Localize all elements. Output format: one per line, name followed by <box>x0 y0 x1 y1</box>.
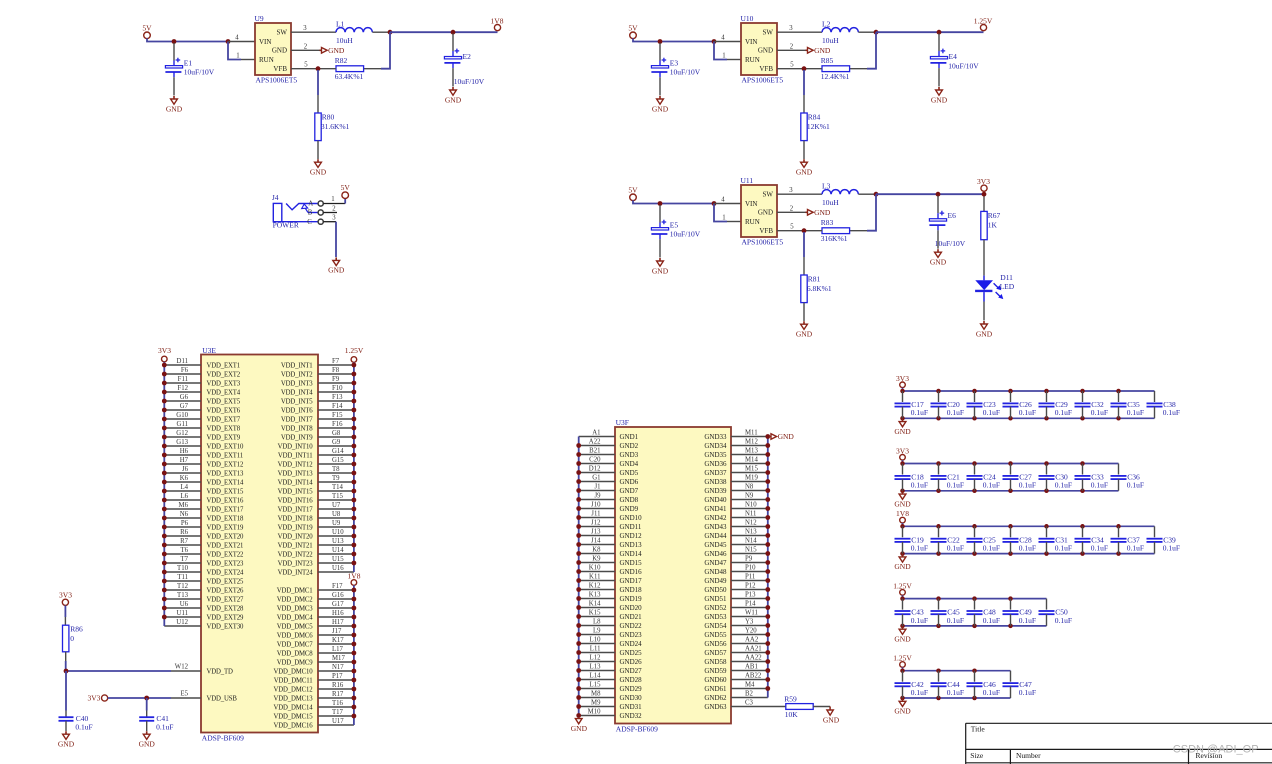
svg-text:F10: F10 <box>332 385 343 392</box>
svg-text:0: 0 <box>70 634 74 643</box>
svg-text:GND: GND <box>894 707 911 716</box>
svg-text:0.1uF: 0.1uF <box>1019 688 1036 697</box>
svg-text:VDD_EXT27: VDD_EXT27 <box>207 596 245 603</box>
svg-text:M19: M19 <box>745 474 758 481</box>
svg-text:R6: R6 <box>180 529 189 536</box>
pin GND wire <box>777 49 807 51</box>
svg-text:U12: U12 <box>176 619 188 626</box>
svg-text:1V8: 1V8 <box>348 572 361 581</box>
svg-text:0.1uF: 0.1uF <box>983 544 1000 553</box>
capacitor C22 0.1uF <box>931 526 965 553</box>
svg-text:D11: D11 <box>177 358 188 365</box>
svg-text:M14: M14 <box>745 456 758 463</box>
svg-text:GND: GND <box>310 168 327 177</box>
svg-text:GND41: GND41 <box>704 505 727 513</box>
svg-text:12.4K%1: 12.4K%1 <box>821 72 850 81</box>
svg-text:GND9: GND9 <box>620 505 639 513</box>
junction <box>802 228 807 233</box>
svg-text:31.6K%1: 31.6K%1 <box>321 122 350 131</box>
svg-text:63.4K%1: 63.4K%1 <box>335 72 364 81</box>
svg-text:R84: R84 <box>808 113 821 122</box>
svg-text:C: C <box>307 219 312 226</box>
svg-text:C20: C20 <box>589 456 601 463</box>
svg-text:E5: E5 <box>670 220 679 229</box>
svg-text:M12: M12 <box>745 438 758 445</box>
svg-text:SW: SW <box>277 28 288 36</box>
svg-text:VDD_INT23: VDD_INT23 <box>278 560 314 567</box>
svg-text:3V3: 3V3 <box>977 177 990 186</box>
svg-text:VDD_INT7: VDD_INT7 <box>281 416 313 423</box>
svg-text:VDD_EXT29: VDD_EXT29 <box>207 614 245 621</box>
svg-text:U3F: U3F <box>616 418 629 427</box>
svg-text:U17: U17 <box>332 718 344 725</box>
junctions <box>162 363 167 620</box>
svg-text:H6: H6 <box>180 448 189 455</box>
svg-text:GND29: GND29 <box>620 685 643 693</box>
pin SW wire <box>291 31 336 33</box>
svg-text:GND44: GND44 <box>704 532 727 540</box>
power port 1.25V <box>974 16 993 30</box>
resistor R82 63.4K%1 <box>318 56 364 81</box>
power port 3V3 <box>87 694 107 703</box>
svg-text:G14: G14 <box>332 448 344 455</box>
wire GND bus <box>903 553 1155 555</box>
ground <box>894 491 911 508</box>
wire RUN loop <box>714 42 741 60</box>
svg-text:T13: T13 <box>177 592 189 599</box>
ground <box>894 626 911 643</box>
svg-text:L12: L12 <box>590 654 602 661</box>
svg-text:F11: F11 <box>178 376 188 383</box>
capacitor C39 0.1uF <box>1147 526 1181 553</box>
junctions <box>900 524 1121 556</box>
svg-text:GND47: GND47 <box>704 559 727 567</box>
svg-text:GND10: GND10 <box>620 514 643 522</box>
svg-text:GND59: GND59 <box>704 667 727 675</box>
svg-text:VDD_INT15: VDD_INT15 <box>278 488 314 495</box>
svg-text:GND8: GND8 <box>620 496 639 504</box>
power port 1.25V <box>893 581 912 595</box>
power port 1.25V <box>893 654 912 668</box>
svg-text:2: 2 <box>790 43 794 50</box>
svg-text:0.1uF: 0.1uF <box>983 616 1000 625</box>
svg-text:U3E: U3E <box>202 346 216 355</box>
svg-text:VDD_INT12: VDD_INT12 <box>278 461 314 468</box>
wire 1V8 bus <box>903 523 1155 526</box>
ground (pin 2) <box>806 208 831 217</box>
svg-text:0.1uF: 0.1uF <box>911 408 928 417</box>
svg-text:VDD_EXT30: VDD_EXT30 <box>207 623 245 630</box>
svg-text:H17: H17 <box>332 619 344 626</box>
svg-text:0.1uF: 0.1uF <box>1055 408 1072 417</box>
svg-text:0.1uF: 0.1uF <box>1127 544 1144 553</box>
capacitor C46 0.1uF <box>967 671 1001 698</box>
pin VFB wire <box>291 68 318 70</box>
U3F left pin wires <box>579 437 615 716</box>
svg-text:0.1uF: 0.1uF <box>1163 408 1180 417</box>
capacitor C48 0.1uF <box>967 599 1001 626</box>
wire 5V input net <box>633 200 714 203</box>
svg-text:GND43: GND43 <box>704 523 727 531</box>
capacitor C34 0.1uF <box>1075 526 1109 553</box>
svg-text:1: 1 <box>722 214 725 221</box>
svg-text:SW: SW <box>763 28 774 36</box>
svg-text:GND18: GND18 <box>620 586 643 594</box>
svg-text:VDD_INT13: VDD_INT13 <box>278 470 314 477</box>
pin numbers <box>721 187 794 230</box>
capacitor C30 0.1uF <box>1039 464 1073 491</box>
svg-text:GND: GND <box>139 740 156 749</box>
svg-text:Title: Title <box>971 725 986 734</box>
svg-text:GND61: GND61 <box>704 685 727 693</box>
svg-text:P12: P12 <box>745 582 756 589</box>
resistor R81 6.8K%1 <box>801 232 832 321</box>
ground <box>652 258 669 275</box>
svg-text:U13: U13 <box>332 538 344 545</box>
svg-text:GND17: GND17 <box>620 577 643 585</box>
ground <box>894 419 911 436</box>
svg-text:1V8: 1V8 <box>896 509 909 518</box>
wire to GND <box>335 222 337 257</box>
svg-text:VDD_EXT21: VDD_EXT21 <box>207 542 244 549</box>
wire W12 net <box>66 661 171 671</box>
svg-text:GND36: GND36 <box>704 460 727 468</box>
svg-text:6.8K%1: 6.8K%1 <box>807 284 832 293</box>
svg-text:G9: G9 <box>332 439 341 446</box>
ground <box>894 554 911 571</box>
svg-text:U10: U10 <box>741 14 754 23</box>
svg-text:0.1uF: 0.1uF <box>947 616 964 625</box>
capacitor C17 0.1uF <box>895 391 929 418</box>
svg-text:F8: F8 <box>332 367 340 374</box>
svg-text:3: 3 <box>789 25 793 32</box>
svg-text:Size: Size <box>970 751 984 760</box>
svg-text:GND22: GND22 <box>620 622 643 630</box>
svg-text:K15: K15 <box>589 609 601 616</box>
svg-text:T8: T8 <box>332 466 340 473</box>
svg-text:L17: L17 <box>332 646 344 653</box>
svg-text:K8: K8 <box>592 546 601 553</box>
svg-text:0.1uF: 0.1uF <box>983 408 1000 417</box>
svg-text:M4: M4 <box>745 681 755 688</box>
svg-text:GND62: GND62 <box>704 694 727 702</box>
svg-text:VDD_EXT20: VDD_EXT20 <box>207 533 245 540</box>
svg-text:G15: G15 <box>332 457 344 464</box>
watermark <box>1173 743 1259 755</box>
wire E5 net <box>108 697 171 699</box>
svg-text:U16: U16 <box>332 565 344 572</box>
pin SW wire <box>777 31 822 33</box>
svg-text:GND: GND <box>166 104 183 113</box>
svg-text:GND16: GND16 <box>620 568 643 576</box>
svg-text:T14: T14 <box>332 484 344 491</box>
svg-text:GND: GND <box>894 499 911 508</box>
svg-text:GND: GND <box>894 635 911 644</box>
svg-text:0.1uF: 0.1uF <box>75 723 92 732</box>
wire 1.25V bus <box>903 667 1011 670</box>
svg-text:GND11: GND11 <box>620 523 642 531</box>
ground <box>571 719 588 733</box>
inductor L2 10uH <box>822 20 874 46</box>
svg-text:RUN: RUN <box>745 56 760 64</box>
junctions <box>900 668 977 700</box>
svg-text:0.1uF: 0.1uF <box>911 616 928 625</box>
svg-text:0.1uF: 0.1uF <box>947 408 964 417</box>
pin numbers <box>721 25 794 68</box>
U3E right pin names <box>273 362 313 729</box>
svg-text:VDD_DMC7: VDD_DMC7 <box>277 641 314 648</box>
svg-text:G12: G12 <box>176 430 188 437</box>
svg-text:H7: H7 <box>180 457 189 464</box>
capacitor C49 0.1uF <box>1003 599 1037 626</box>
resistor R59 10K <box>784 695 830 719</box>
capacitor C50 0.1uF <box>1039 599 1073 626</box>
svg-text:M13: M13 <box>745 447 758 454</box>
svg-text:GND: GND <box>796 330 813 339</box>
svg-text:GND: GND <box>931 95 948 104</box>
svg-text:GND: GND <box>328 46 345 55</box>
svg-text:T17: T17 <box>332 709 344 716</box>
svg-text:316K%1: 316K%1 <box>821 234 848 243</box>
svg-text:J13: J13 <box>591 528 601 535</box>
ground <box>796 321 813 338</box>
svg-text:GND1: GND1 <box>620 433 639 441</box>
svg-text:GND32: GND32 <box>620 712 643 720</box>
svg-text:5V: 5V <box>341 183 351 192</box>
ground <box>445 87 462 104</box>
capacitor C38 0.1uF <box>1147 391 1181 418</box>
power port 5V (U11 input) <box>628 185 638 200</box>
svg-text:GND: GND <box>758 209 773 217</box>
wire 3V3 bus <box>903 460 1119 463</box>
wire GND bus <box>903 625 1047 627</box>
resistor R67 1K <box>981 196 1001 275</box>
svg-text:1V8: 1V8 <box>491 16 504 25</box>
inductor L3 10uH <box>822 182 874 208</box>
svg-text:F12: F12 <box>177 385 188 392</box>
svg-text:GND: GND <box>652 104 669 113</box>
svg-text:P17: P17 <box>332 673 343 680</box>
svg-text:B: B <box>308 210 313 217</box>
svg-text:5: 5 <box>790 224 794 231</box>
svg-text:P11: P11 <box>745 573 755 580</box>
svg-text:U7: U7 <box>332 502 341 509</box>
power port 5V (U10 input) <box>628 23 638 38</box>
svg-text:R83: R83 <box>821 218 834 227</box>
svg-text:VDD_INT5: VDD_INT5 <box>281 398 313 405</box>
svg-text:10uF/10V: 10uF/10V <box>948 61 979 70</box>
wire 5V input net <box>633 38 714 41</box>
ground <box>58 731 75 748</box>
svg-text:GND4: GND4 <box>620 460 639 468</box>
svg-text:VDD_INT14: VDD_INT14 <box>278 479 314 486</box>
svg-text:VDD_DMC12: VDD_DMC12 <box>273 686 313 693</box>
svg-text:APS1006ET5: APS1006ET5 <box>742 76 784 85</box>
svg-text:P14: P14 <box>745 600 756 607</box>
wire GND bus <box>903 490 1119 492</box>
svg-text:GND: GND <box>814 208 831 217</box>
svg-text:M11: M11 <box>745 429 758 436</box>
ground <box>931 87 948 104</box>
power port 1V8 <box>491 16 504 30</box>
svg-text:G6: G6 <box>180 394 189 401</box>
pin VDD_USB E5 <box>171 691 201 698</box>
svg-text:R82: R82 <box>335 56 348 65</box>
junction <box>802 66 807 71</box>
svg-text:VDD_EXT4: VDD_EXT4 <box>207 389 241 396</box>
svg-text:U15: U15 <box>332 556 344 563</box>
pin VFB wire <box>777 230 804 232</box>
svg-text:GND7: GND7 <box>620 487 639 495</box>
capacitor E2 10uF/10V <box>452 34 454 57</box>
svg-text:0.1uF: 0.1uF <box>156 723 173 732</box>
svg-text:POWER: POWER <box>273 221 299 230</box>
svg-text:4: 4 <box>235 35 239 42</box>
ground <box>652 96 669 113</box>
svg-text:R81: R81 <box>808 275 821 284</box>
svg-text:GND12: GND12 <box>620 532 643 540</box>
capacitor C27 0.1uF <box>1003 464 1037 491</box>
wire 1.25V bus <box>903 595 1047 598</box>
svg-text:0.1uF: 0.1uF <box>1019 408 1036 417</box>
svg-text:0.1uF: 0.1uF <box>1019 481 1036 490</box>
svg-text:U8: U8 <box>332 511 341 518</box>
svg-text:A22: A22 <box>589 438 601 445</box>
svg-text:L13: L13 <box>590 663 602 670</box>
svg-text:GND54: GND54 <box>704 622 727 630</box>
svg-text:F6: F6 <box>181 367 189 374</box>
svg-text:VDD_EXT11: VDD_EXT11 <box>207 452 244 459</box>
svg-text:U6: U6 <box>180 601 189 608</box>
svg-text:0.1uF: 0.1uF <box>1019 616 1036 625</box>
svg-text:3: 3 <box>332 215 336 222</box>
pin VDD_TD W12 <box>171 664 201 671</box>
wire GND bus <box>903 417 1155 419</box>
IC U3E ADSP-BF609 <box>201 346 318 743</box>
svg-text:10uH: 10uH <box>822 198 839 207</box>
wire GND rail right <box>767 437 769 698</box>
svg-text:G17: G17 <box>332 601 344 608</box>
svg-text:AA2: AA2 <box>745 636 759 643</box>
svg-text:AB22: AB22 <box>745 672 762 679</box>
svg-text:GND30: GND30 <box>620 694 643 702</box>
svg-text:U9: U9 <box>332 520 341 527</box>
svg-text:0.1uF: 0.1uF <box>1091 481 1108 490</box>
wire RUN loop <box>714 204 741 222</box>
power port 1V8 (U3E DMC rail) <box>348 572 361 586</box>
IC U3F ADSP-BF609 <box>615 418 731 733</box>
svg-text:CSDN @ADI_OP: CSDN @ADI_OP <box>1173 743 1259 755</box>
resistor R85 12.4K%1 <box>804 56 850 81</box>
svg-text:VDD_EXT7: VDD_EXT7 <box>207 416 241 423</box>
svg-text:VDD_DMC5: VDD_DMC5 <box>277 623 314 630</box>
svg-text:GND52: GND52 <box>704 604 727 612</box>
svg-text:VDD_DMC16: VDD_DMC16 <box>273 722 313 729</box>
svg-text:ADSP-BF609: ADSP-BF609 <box>202 734 244 743</box>
svg-text:J12: J12 <box>591 519 601 526</box>
svg-text:E2: E2 <box>463 52 472 61</box>
svg-text:GND60: GND60 <box>704 676 727 684</box>
capacitor E4 10uF/10V <box>938 34 940 57</box>
svg-text:5: 5 <box>790 62 794 69</box>
svg-text:K17: K17 <box>332 637 344 644</box>
wire RUN loop <box>228 42 255 60</box>
svg-text:F13: F13 <box>332 394 343 401</box>
junction <box>451 30 456 35</box>
svg-text:10uH: 10uH <box>822 36 839 45</box>
svg-text:T6: T6 <box>180 547 188 554</box>
svg-text:N8: N8 <box>745 483 754 490</box>
svg-text:G10: G10 <box>176 412 188 419</box>
junction <box>874 30 879 35</box>
capacitor C47 0.1uF <box>1003 671 1037 698</box>
svg-text:5: 5 <box>304 62 308 69</box>
svg-text:3V3: 3V3 <box>896 446 909 455</box>
svg-text:0.1uF: 0.1uF <box>1127 481 1144 490</box>
svg-text:U11: U11 <box>177 610 188 617</box>
svg-text:P6: P6 <box>181 520 189 527</box>
svg-text:1.25V: 1.25V <box>893 654 912 663</box>
capacitor C24 0.1uF <box>967 464 1001 491</box>
svg-text:10uF/10V: 10uF/10V <box>670 68 701 77</box>
svg-text:L6: L6 <box>180 493 188 500</box>
U3E left pin wires <box>164 365 201 626</box>
svg-text:VDD_DMC1: VDD_DMC1 <box>277 587 313 594</box>
svg-text:10uF/10V: 10uF/10V <box>935 239 966 248</box>
svg-text:U11: U11 <box>741 176 754 185</box>
svg-text:K12: K12 <box>589 582 601 589</box>
regulator IC U11 APS1006ET5 <box>741 176 784 247</box>
svg-text:0.1uF: 0.1uF <box>1019 544 1036 553</box>
svg-text:N11: N11 <box>745 510 756 517</box>
svg-text:J6: J6 <box>182 466 189 473</box>
svg-text:VDD_INT3: VDD_INT3 <box>281 380 313 387</box>
svg-text:VDD_EXT18: VDD_EXT18 <box>207 515 245 522</box>
svg-text:T9: T9 <box>332 475 340 482</box>
svg-text:C3: C3 <box>745 699 754 706</box>
svg-text:4: 4 <box>721 35 725 42</box>
svg-text:Y20: Y20 <box>745 627 757 634</box>
svg-text:VDD_EXT13: VDD_EXT13 <box>207 470 245 477</box>
svg-text:VIN: VIN <box>259 38 271 46</box>
svg-text:F16: F16 <box>332 421 343 428</box>
svg-text:N10: N10 <box>745 501 757 508</box>
svg-text:VDD_EXT22: VDD_EXT22 <box>207 551 245 558</box>
svg-text:0.1uF: 0.1uF <box>1091 408 1108 417</box>
svg-text:GND51: GND51 <box>704 595 727 603</box>
svg-text:T10: T10 <box>177 565 189 572</box>
U3E right pin designators <box>332 358 345 725</box>
svg-text:VDD_EXT14: VDD_EXT14 <box>207 479 245 486</box>
svg-text:0.1uF: 0.1uF <box>1055 481 1072 490</box>
wire feedback net <box>364 32 390 68</box>
svg-text:GND20: GND20 <box>620 604 643 612</box>
svg-text:GND: GND <box>894 562 911 571</box>
regulator IC U10 APS1006ET5 <box>741 14 784 85</box>
svg-text:GND2: GND2 <box>620 442 639 450</box>
wire 3V3 output net <box>876 193 984 195</box>
capacitor C20 0.1uF <box>931 391 965 418</box>
svg-text:GND50: GND50 <box>704 586 727 594</box>
svg-text:M17: M17 <box>332 655 345 662</box>
svg-text:APS1006ET5: APS1006ET5 <box>256 76 298 85</box>
svg-text:J9: J9 <box>594 492 601 499</box>
svg-text:AB1: AB1 <box>745 663 758 670</box>
svg-text:R7: R7 <box>180 538 189 545</box>
svg-text:Y3: Y3 <box>745 618 754 625</box>
capacitor C43 0.1uF <box>895 599 929 626</box>
svg-text:GND37: GND37 <box>704 469 727 477</box>
